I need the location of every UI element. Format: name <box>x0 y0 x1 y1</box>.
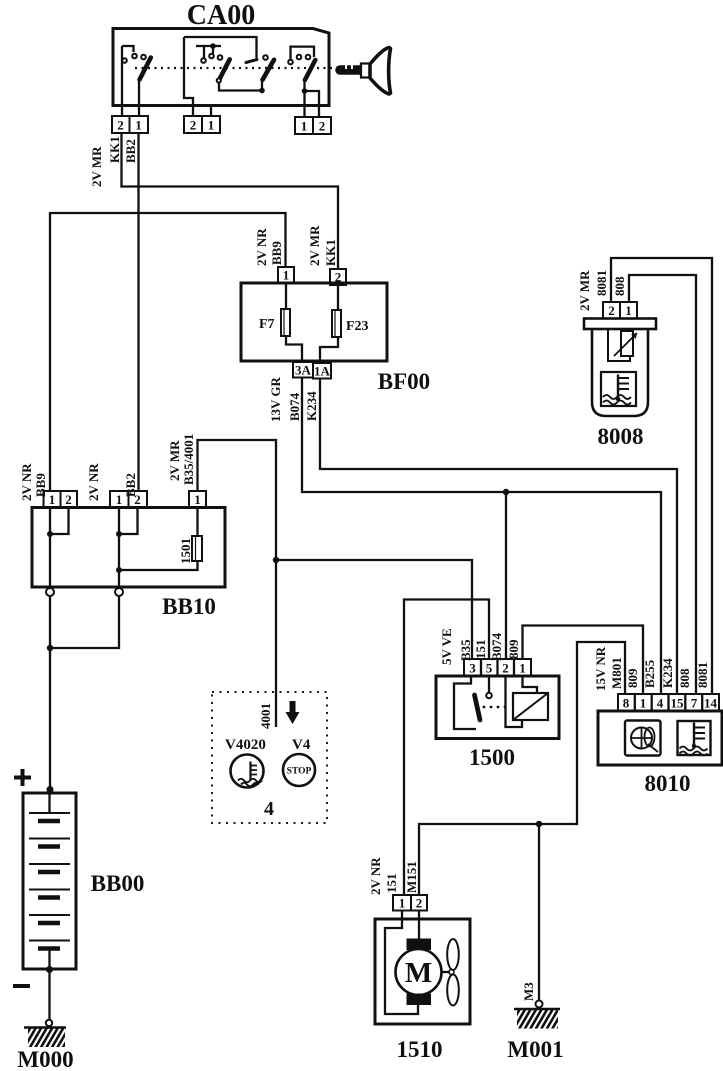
svg-text:KK1: KK1 <box>107 136 122 163</box>
svg-text:4: 4 <box>264 798 274 820</box>
8008 sensor pocket <box>608 329 630 361</box>
wire BB9: BB10 conn1 pin 1 to BF00 pin 1 <box>50 213 286 491</box>
ground M001 terminal <box>536 1001 543 1008</box>
relay coil <box>513 693 548 720</box>
CA00 switch unit 4 contacts <box>288 55 310 65</box>
svg-text:BB2: BB2 <box>123 139 138 163</box>
motor top brush <box>407 939 432 951</box>
CA00 switch unit 1 contacts <box>122 54 146 63</box>
wire B074 branch down to relay 1500 pin 2 <box>505 492 507 659</box>
instrument cluster box 4 (dashed) <box>212 692 327 823</box>
svg-text:B074: B074 <box>489 632 504 661</box>
BB10 output terminal 2 <box>115 588 123 596</box>
svg-text:2V MR: 2V MR <box>577 270 592 311</box>
CA00 switch unit 2 contacts <box>201 54 222 63</box>
BF00 output pin 1A <box>313 363 331 379</box>
temperature sensor 8008 body <box>592 329 648 416</box>
CA00 switch unit 4 blade <box>305 60 315 80</box>
motor fan blade bottom <box>447 975 459 1006</box>
wire K234: BF00 1A to 8010 pin 15 <box>320 379 677 695</box>
svg-text:8081: 8081 <box>594 270 609 296</box>
svg-text:1: 1 <box>625 303 632 318</box>
8008 thermistor symbol <box>621 331 633 356</box>
svg-text:2: 2 <box>502 661 509 676</box>
svg-text:F23: F23 <box>346 319 369 334</box>
battery internal stub bottom <box>48 950 50 969</box>
BB10 box <box>32 508 225 588</box>
junction B35/4001 <box>273 557 279 563</box>
8010 connector pins 8|1|4|15|7|14 <box>618 694 719 711</box>
8008 thermometer <box>617 375 619 400</box>
svg-text:151: 151 <box>473 640 488 660</box>
svg-text:BB00: BB00 <box>91 871 145 896</box>
svg-text:V4: V4 <box>292 737 311 753</box>
wire B074/B255: BF00 3A to relay and 8010 pin 4 <box>302 378 661 695</box>
svg-text:2V MR: 2V MR <box>167 440 182 481</box>
CA00 switch unit 1 blade <box>140 58 151 80</box>
CA00 connector 2 pins 2|1 <box>184 116 220 133</box>
wire branch to conn3 pin 2 <box>305 91 320 117</box>
svg-text:808: 808 <box>612 276 627 296</box>
svg-text:2V MR: 2V MR <box>89 146 104 187</box>
arrow into cluster <box>286 701 300 724</box>
BB10 fuse 1501 feed wire <box>119 508 198 571</box>
wire B35/4001: BB10 conn3 to relay pin 3 and shunt 4 <box>198 440 277 727</box>
svg-text:M: M <box>405 957 432 989</box>
svg-text:2: 2 <box>319 119 326 134</box>
control unit 8010 box <box>598 711 722 765</box>
wire branch to ground M001 <box>538 824 540 1000</box>
svg-text:2V NR: 2V NR <box>86 463 101 501</box>
relay 1500 connector pins 3|5|2|1 <box>464 659 531 676</box>
fan motor 1510 box <box>375 919 470 1024</box>
BF00 pin 1 connector <box>278 267 294 283</box>
CA00 unit 2 blade terminal <box>217 78 221 82</box>
svg-text:4: 4 <box>657 696 664 711</box>
motor fan blade top <box>447 939 459 970</box>
svg-text:M000: M000 <box>17 1047 73 1071</box>
svg-text:2V MR: 2V MR <box>307 225 322 266</box>
svg-text:5: 5 <box>486 661 493 676</box>
svg-text:1: 1 <box>301 119 308 134</box>
8010 thermo icon frame <box>678 721 711 755</box>
svg-text:4001: 4001 <box>258 703 273 729</box>
svg-text:KK1: KK1 <box>323 239 338 266</box>
fuse F23 <box>332 310 341 337</box>
svg-text:B35/4001: B35/4001 <box>181 434 196 485</box>
svg-text:3: 3 <box>469 661 476 676</box>
8010 thermometer icon <box>693 723 695 747</box>
svg-text:2: 2 <box>117 118 124 133</box>
relay coil diagonal <box>513 693 548 720</box>
svg-text:1A: 1A <box>314 364 331 379</box>
CA00 switch unit 2 outer path to pin 2 <box>184 37 193 116</box>
relay pin 1 wire to coil <box>523 676 538 693</box>
BF00 output pin 3A <box>293 362 313 378</box>
svg-text:3A: 3A <box>295 363 312 378</box>
relay actuation dotted link <box>483 706 507 709</box>
motor pin 2 internal wire <box>418 911 420 940</box>
svg-text:CA00: CA00 <box>187 0 255 31</box>
BB10 connector 2 pins 1|2 <box>110 491 147 508</box>
junction battery positive terminal <box>47 786 54 793</box>
svg-text:5V VE: 5V VE <box>439 628 454 665</box>
junction ground rail <box>536 821 542 827</box>
battery minus sign <box>13 984 30 988</box>
wire CA00 unit1 blade to pin 1 <box>138 79 140 116</box>
junction 1501 to conn2 net <box>116 567 122 573</box>
wire BB2: CA00 pin1 to BB10 conn2 pin 2 <box>137 133 139 491</box>
svg-text:1: 1 <box>208 118 215 133</box>
svg-text:1: 1 <box>49 492 56 507</box>
wire KK1: CA00 pin2 to BF00 pin 2 <box>122 133 339 269</box>
svg-text:2V NR: 2V NR <box>254 228 269 266</box>
fuse F23 inner line <box>334 310 336 337</box>
svg-text:M801: M801 <box>609 657 624 689</box>
BB10 internal wire conn1 pin1 down <box>49 508 51 589</box>
svg-text:BF00: BF00 <box>378 369 430 394</box>
junction under blade 4 <box>302 88 308 94</box>
svg-text:B074: B074 <box>287 392 302 421</box>
V4020 thermometer icon <box>249 762 251 781</box>
motor bottom brush <box>407 994 432 1006</box>
svg-text:STOP: STOP <box>287 767 312 777</box>
svg-text:2: 2 <box>65 492 72 507</box>
BB10 internal wire conn1 pin2 <box>50 508 69 535</box>
CA00 switch unit 2 blade <box>219 59 229 79</box>
svg-text:2V NR: 2V NR <box>19 463 34 501</box>
junction blade2/blade3 link <box>259 88 265 94</box>
svg-text:151: 151 <box>384 874 399 894</box>
junction B074 splice <box>503 489 509 495</box>
svg-text:F7: F7 <box>259 317 275 332</box>
svg-text:1: 1 <box>194 492 201 507</box>
battery cell plates (short thick) <box>38 821 60 949</box>
8010 fan icon <box>631 728 652 749</box>
fuse 1501 inner line <box>195 536 197 561</box>
relay switch blade <box>475 695 481 720</box>
svg-text:15V NR: 15V NR <box>593 646 608 691</box>
relay pin 2 wire to coil <box>506 676 523 727</box>
svg-text:1501: 1501 <box>178 538 193 564</box>
svg-text:B35: B35 <box>458 639 473 661</box>
wire blade2 bottom to link rail <box>219 83 262 91</box>
8008 thermistor arrow <box>614 333 637 356</box>
junction battery feed <box>47 645 53 651</box>
ground M000 symbol <box>18 1025 82 1049</box>
motor body circle <box>396 949 442 995</box>
wire BB10 terminals join to battery feed <box>50 596 119 793</box>
battery cell plates (long) <box>29 813 70 941</box>
junction battery negative terminal <box>46 966 53 973</box>
wire battery negative to ground M000 <box>48 969 50 1020</box>
wire 8081: sensor 8008 pin 2 to 8010 pin 14 <box>611 258 712 694</box>
wire BF00 pin1 to fuse F7 and down to 3A <box>286 283 302 362</box>
wire 809: relay pin 1 to 8010 pin 1 <box>523 626 644 695</box>
ignition switch CA00 box <box>113 29 329 106</box>
fuse 1501 <box>192 536 202 561</box>
BF00 pin 2 connector <box>330 269 346 285</box>
wire B35 branch to relay 1500 pin 3 <box>276 560 472 660</box>
svg-text:1: 1 <box>640 696 647 711</box>
svg-text:M001: M001 <box>507 1037 563 1062</box>
svg-text:B255: B255 <box>642 659 657 688</box>
8010 fan icon frame <box>625 721 661 756</box>
svg-text:V4020: V4020 <box>225 737 266 753</box>
svg-text:1: 1 <box>399 896 406 911</box>
wire 808: sensor 8008 pin 1 to 8010 pin 7 <box>629 275 696 694</box>
indicator V4 STOP lamp <box>283 754 315 786</box>
svg-text:K234: K234 <box>304 391 319 421</box>
svg-text:1: 1 <box>283 268 290 283</box>
svg-text:8008: 8008 <box>598 424 644 449</box>
wire 151: relay pin 5 to motor 1510 pin 1 <box>404 600 489 896</box>
svg-text:1: 1 <box>519 661 526 676</box>
battery BB00 box <box>23 793 76 969</box>
wire M151/M801: motor pin2 to ground rail to 8010 pin 8 <box>419 642 625 895</box>
CA00 switch unit 2 contact bracket <box>196 46 221 58</box>
svg-text:2: 2 <box>608 303 615 318</box>
CA00 switch unit 3 blade <box>263 60 275 80</box>
motor 1510 connector pins 1|2 <box>393 895 427 911</box>
junction on unit 2 bracket <box>210 43 216 49</box>
stub to CA00 conn2 pin 1 <box>210 106 212 117</box>
CA00 top rail wire units 2-3 <box>184 37 257 58</box>
CA00 switch unit 3 contact pad <box>246 60 257 63</box>
svg-text:M151: M151 <box>404 861 419 893</box>
svg-text:BB9: BB9 <box>269 241 284 265</box>
CA00 connector 1 pins 2|1 <box>112 116 148 133</box>
8010 liquid waves <box>680 747 708 756</box>
fuse F7 inner line <box>283 309 285 336</box>
8008 liquid box <box>601 372 636 406</box>
relay pin 5 wire and contact <box>488 676 490 692</box>
svg-text:2: 2 <box>190 118 197 133</box>
svg-text:808: 808 <box>677 668 692 688</box>
temperature sensor 8008 flange <box>584 319 656 330</box>
svg-text:BB10: BB10 <box>162 594 216 619</box>
indicator V4020 (coolant temp lamp) <box>231 755 264 788</box>
svg-text:BB2: BB2 <box>123 473 138 497</box>
fuse F7 <box>281 309 290 336</box>
wire blade3 bottom to link rail <box>261 80 263 91</box>
svg-text:M3: M3 <box>521 982 536 1001</box>
BB10 internal wire conn2 pin2 <box>119 508 138 535</box>
svg-text:1: 1 <box>135 118 142 133</box>
relay contact bracket (pin 3) <box>454 676 476 729</box>
svg-text:1500: 1500 <box>469 745 515 770</box>
ignition key bow <box>370 48 391 95</box>
BB10 connector 1 pins 1|2 <box>44 491 78 508</box>
ground M000 terminal <box>46 1020 52 1026</box>
CA00 switch unit 4 contact bracket <box>291 47 315 60</box>
ignition key collar <box>361 64 370 78</box>
motor fan shaft <box>442 971 450 973</box>
svg-text:7: 7 <box>691 696 698 711</box>
svg-text:8: 8 <box>623 696 630 711</box>
svg-text:809: 809 <box>506 639 521 659</box>
CA00 switch unit 3 contact <box>263 55 268 60</box>
wire blade4 to conn3 pin 1 <box>303 80 305 117</box>
BF00 box <box>241 283 387 361</box>
motor pin 1 internal wire loop <box>385 911 418 1015</box>
svg-text:1510: 1510 <box>397 1037 443 1062</box>
junction BB10 conn1 <box>47 531 53 537</box>
ground M001 symbol <box>507 1007 576 1031</box>
BB10 internal wire conn2 pin1 down <box>118 508 120 589</box>
8008 liquid waves <box>603 395 631 405</box>
ignition key shaft <box>340 65 361 75</box>
8008 connector pins 2|1 <box>603 302 637 319</box>
svg-text:1: 1 <box>116 492 123 507</box>
wire BF00 pin2 to fuse F23 and down to 1A <box>320 284 338 363</box>
CA00 switch unit 1 contact bracket <box>122 46 134 52</box>
svg-text:809: 809 <box>625 668 640 688</box>
wire CA00 unit1 to pin 2 <box>121 46 123 116</box>
svg-text:2V NR: 2V NR <box>368 857 383 895</box>
svg-text:BB9: BB9 <box>33 473 48 497</box>
svg-text:14: 14 <box>704 696 718 711</box>
svg-text:15: 15 <box>671 696 685 711</box>
svg-text:13V GR: 13V GR <box>268 376 283 422</box>
BB10 output terminal 1 <box>46 588 54 596</box>
svg-text:2: 2 <box>416 896 423 911</box>
relay 1500 box <box>436 676 559 739</box>
svg-text:K234: K234 <box>660 658 675 688</box>
motor fan hub <box>449 970 454 975</box>
battery plus sign <box>14 769 31 786</box>
BB10 connector 3 pin 1 <box>189 491 206 508</box>
junction BB10 conn2 <box>116 531 122 537</box>
CA00 internal dotted actuator line <box>135 67 334 69</box>
svg-text:8081: 8081 <box>695 662 710 688</box>
svg-text:8010: 8010 <box>645 771 691 796</box>
battery internal stub top <box>48 793 50 813</box>
CA00 connector 3 pins 1|2 <box>295 117 331 134</box>
